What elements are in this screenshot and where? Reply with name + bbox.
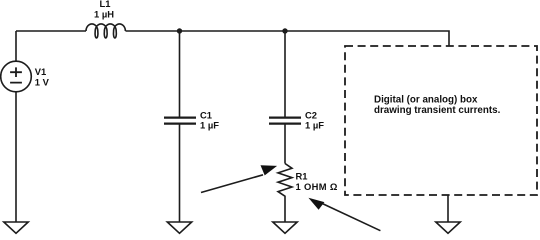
svg-text:1 µF: 1 µF <box>305 120 324 131</box>
svg-text:1 µF: 1 µF <box>200 120 219 131</box>
svg-text:1 µH: 1 µH <box>94 8 114 19</box>
svg-text:Digital (or analog) box: Digital (or analog) box <box>374 95 478 106</box>
svg-text:1 OHM Ω: 1 OHM Ω <box>296 181 338 192</box>
svg-text:1 V: 1 V <box>35 76 50 87</box>
svg-text:drawing transient currents.: drawing transient currents. <box>374 105 501 116</box>
